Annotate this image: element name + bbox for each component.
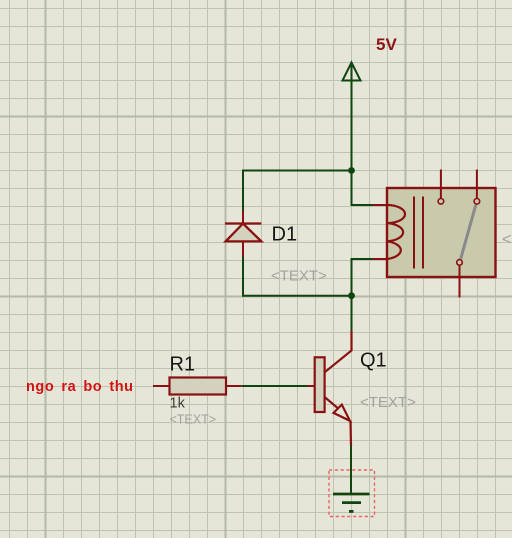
wire relay coil bottom pin to junction: [352, 259, 373, 296]
relay core lines: [414, 197, 423, 269]
wire bottom junction to transistor collector: [351, 296, 353, 331]
svg-text:R1: R1: [170, 354, 196, 376]
ground selection dashed box: [329, 470, 375, 517]
svg-text:<TEXT>: <TEXT>: [502, 231, 512, 249]
wire emitter to ground: [350, 446, 352, 493]
relay coil arcs: [387, 205, 405, 259]
junction dot bottom (node collector): [348, 292, 355, 299]
transistor Q1: [307, 331, 352, 446]
ground symbol: [333, 494, 370, 511]
svg-text:<TEXT>: <TEXT>: [170, 413, 217, 427]
junction dot top (node VCC): [348, 167, 355, 174]
wire from diode anode to bottom junction: [243, 257, 352, 296]
relay contact pin top-left: [440, 170, 442, 199]
svg-text:<TEXT>: <TEXT>: [271, 268, 327, 285]
wire resistor to transistor base: [241, 385, 307, 387]
resistor R1: [153, 378, 241, 395]
relay coil pin 2: [373, 258, 388, 260]
power terminal 5V arrow: [343, 63, 361, 171]
svg-text:1k: 1k: [170, 396, 186, 412]
relay contact circle top-right: [474, 199, 480, 205]
relay contact pin bottom: [459, 266, 461, 298]
svg-text:5V: 5V: [376, 35, 397, 54]
relay contact pin top-right: [476, 170, 478, 199]
relay contact circle top-left: [438, 199, 444, 205]
svg-text:<TEXT>: <TEXT>: [360, 394, 416, 411]
relay coil pin 1: [373, 204, 388, 206]
relay contact circle bottom: [457, 260, 463, 266]
diode D1: [225, 211, 261, 258]
relay switch arm: [461, 205, 476, 259]
svg-text:D1: D1: [272, 224, 298, 246]
relay RL1 body: [387, 188, 496, 277]
wire junction to relay coil top pin: [352, 171, 373, 206]
svg-text:Q1: Q1: [360, 350, 387, 372]
svg-text:ngo ra bo thu: ngo ra bo thu: [26, 379, 134, 395]
wire from junction to diode cathode: [243, 171, 352, 211]
